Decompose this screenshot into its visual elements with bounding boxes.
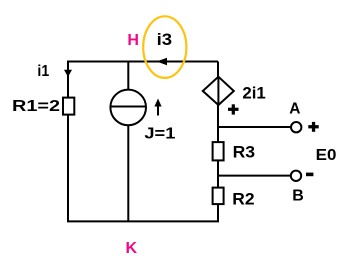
label A bbox=[289, 100, 300, 117]
wire left branch bbox=[67, 62, 69, 223]
svg-text:2i1: 2i1 bbox=[242, 84, 265, 103]
current arrow i3 on top wire bbox=[157, 58, 168, 65]
label i1 bbox=[37, 63, 49, 80]
label i3 bbox=[157, 31, 173, 49]
wire bottom K bbox=[67, 220, 219, 222]
resistor R1 bbox=[63, 98, 74, 115]
label E0 bbox=[316, 147, 337, 164]
node H bbox=[127, 32, 139, 49]
label J=1 bbox=[144, 125, 175, 142]
label R3 bbox=[233, 143, 256, 162]
highlight ellipse around i3 bbox=[143, 16, 186, 78]
wire right branch bbox=[217, 62, 219, 223]
current source J bbox=[110, 90, 146, 126]
wire to terminal B bbox=[218, 175, 291, 177]
svg-text:J=1: J=1 bbox=[144, 125, 175, 142]
resistor R2 bbox=[213, 188, 224, 205]
svg-text:R3: R3 bbox=[233, 143, 256, 162]
wire middle branch bbox=[127, 62, 129, 223]
wire to terminal A bbox=[218, 126, 291, 128]
wire top H bbox=[68, 62, 218, 63]
svg-text:i3: i3 bbox=[157, 31, 173, 49]
svg-text:R1=2: R1=2 bbox=[12, 98, 60, 115]
label B bbox=[292, 188, 304, 205]
svg-text:R2: R2 bbox=[232, 190, 254, 209]
current source direction arrow bbox=[154, 99, 161, 116]
label R2 bbox=[232, 190, 254, 209]
svg-text:E0: E0 bbox=[316, 147, 337, 164]
label R1=2 bbox=[12, 98, 60, 115]
svg-text:A: A bbox=[289, 100, 300, 117]
svg-text:H: H bbox=[127, 32, 139, 49]
svg-text:K: K bbox=[126, 240, 138, 257]
svg-text:B: B bbox=[292, 188, 304, 205]
plus sign of dependent source bbox=[228, 104, 239, 114]
terminal A bbox=[291, 122, 301, 132]
label 2i1 bbox=[242, 84, 265, 103]
current arrow i1 bbox=[64, 70, 72, 77]
terminal B bbox=[291, 171, 301, 181]
node K bbox=[126, 240, 138, 257]
resistor R3 bbox=[213, 142, 224, 160]
plus sign at A bbox=[308, 122, 318, 132]
minus sign at B bbox=[306, 173, 313, 177]
dependent source 2i1 (diamond) bbox=[203, 77, 234, 105]
svg-text:i1: i1 bbox=[37, 63, 49, 80]
